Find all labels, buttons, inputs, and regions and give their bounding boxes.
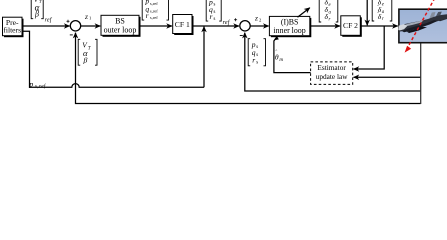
svg-text:2: 2: [259, 17, 262, 22]
wire red dashed disturbance arrow: [407, 0, 435, 49]
svg-text:1: 1: [89, 16, 92, 21]
svg-text:s: s: [214, 10, 216, 15]
svg-text:s: s: [256, 61, 258, 66]
svg-text:r: r: [382, 17, 384, 22]
node plus sign sum1: [67, 20, 70, 23]
svg-text:inner loop: inner loop: [273, 26, 305, 35]
wire feedback V,alpha,beta: bottom line to sum1: [76, 33, 421, 104]
svg-text:β: β: [83, 56, 88, 65]
jet rear taper: [437, 15, 447, 21]
wire sum1 to BS outer loop: [81, 25, 101, 27]
wire tap down to estimator input 1: [354, 26, 385, 69]
svg-text:r: r: [210, 12, 213, 21]
svg-text:s,ref: s,ref: [35, 83, 47, 90]
jet tail fin 2: [434, 12, 442, 21]
wire estimator input 2 from aircraft tap: [354, 76, 421, 78]
block aircraft photo: [398, 9, 447, 43]
block BS outer loop: [101, 15, 141, 37]
svg-text:s: s: [214, 17, 216, 22]
wire p_s,ref join arrow up into main wire: [203, 27, 205, 88]
wire inner loop to CF2: [310, 25, 340, 27]
svg-text:s: s: [256, 53, 258, 58]
wire estimator output theta_hat to inner loop: [274, 38, 311, 73]
node vector label [p_s; q_s; r_s]_ref (top cut): [206, 0, 231, 26]
svg-text:s: s: [214, 3, 216, 8]
svg-text:T: T: [88, 46, 91, 51]
svg-text:p: p: [28, 79, 33, 88]
svg-text:r: r: [146, 11, 149, 20]
wire p_s,ref from Pre-filters down right and up: [22, 31, 204, 87]
svg-text:ref: ref: [223, 19, 231, 26]
node vector label [delta_e; delta_a; delta_r] commanded (top cut): [319, 0, 338, 22]
node feedback vector [V_T; alpha; beta]: [78, 39, 97, 65]
node feedback vector [p_s; q_s; r_s]: [248, 39, 265, 66]
svg-text:ˆ: ˆ: [275, 50, 277, 56]
wire diagonal arrow from inner loop top: [298, 8, 310, 17]
jet nose cone: [398, 24, 407, 30]
jet dark stores underside: [407, 27, 427, 33]
node ref vector label [V_T; alpha; beta]_ref (top cut): [31, 0, 53, 24]
block CF 1: [173, 15, 194, 36]
wire aircraft output vertical: [420, 43, 422, 104]
svg-text:r: r: [252, 56, 255, 65]
jet tail fin 1: [428, 12, 436, 22]
node plus sign sum2: [234, 18, 237, 21]
svg-text:update law: update law: [316, 72, 349, 81]
block CF 2: [341, 16, 362, 37]
block Estimator update law (dashed): [311, 62, 353, 85]
summing junction 2: [240, 21, 250, 31]
node minus sign sum2: [240, 35, 243, 37]
svg-text:CF 1: CF 1: [175, 20, 190, 29]
wire BS outer loop to CF1: [139, 25, 172, 27]
svg-text:z: z: [84, 12, 88, 21]
jet dark wing mass: [402, 20, 438, 32]
block Pre-filters: [3, 17, 24, 37]
svg-text:Estimator: Estimator: [317, 63, 346, 72]
svg-text:BS: BS: [115, 17, 125, 26]
svg-text:e: e: [329, 3, 332, 8]
svg-text:β: β: [34, 10, 39, 19]
svg-text:r: r: [329, 17, 331, 22]
svg-text:e: e: [382, 3, 385, 8]
wire sum2 to inner loop: [250, 25, 268, 27]
svg-text:outer loop: outer loop: [104, 25, 137, 34]
node minus sign sum1: [70, 34, 73, 36]
node vector label [p q r]_{s,ref} (top cut): [142, 0, 168, 21]
jet fuselage band: [399, 14, 447, 31]
svg-text:s: s: [256, 45, 258, 50]
svg-text:s,ref: s,ref: [150, 1, 158, 7]
svg-text:CF 2: CF 2: [343, 21, 358, 30]
wire feedback p,q,r to sum2: [245, 33, 421, 91]
svg-text:ref: ref: [45, 17, 53, 24]
wire arrow down into main wire at x=367: [366, 0, 368, 25]
svg-text:s,ref: s,ref: [150, 15, 158, 21]
svg-text:s,ref: s,ref: [150, 9, 158, 15]
svg-text:filters: filters: [3, 25, 21, 34]
node vector label [delta_e; delta_a; delta_r] hat filtered (top cut): [372, 0, 392, 22]
wire CF1 to sum2: [192, 25, 239, 27]
svg-text:a: a: [382, 10, 385, 15]
svg-text:T: T: [39, 0, 42, 4]
wire CF2 to aircraft: [360, 25, 397, 27]
jet deck highlight: [404, 20, 424, 26]
wire Pre-filters to sum1: [22, 25, 70, 27]
svg-text:m: m: [279, 58, 283, 63]
summing junction 1: [70, 21, 80, 31]
block (I)BS inner loop: [269, 16, 311, 37]
svg-text:z: z: [254, 13, 258, 22]
svg-text:a: a: [329, 10, 332, 15]
